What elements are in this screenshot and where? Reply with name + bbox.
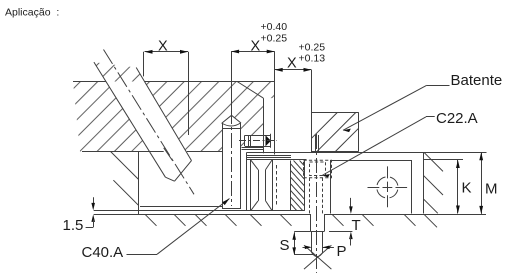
svg-text:X: X (158, 39, 168, 55)
svg-text:M: M (485, 180, 498, 197)
svg-text:+0.13: +0.13 (299, 53, 326, 65)
svg-text:Aplicação :: Aplicação : (5, 6, 59, 18)
svg-text:+0.40: +0.40 (261, 21, 288, 33)
svg-text:Batente: Batente (451, 72, 503, 89)
svg-text:C22.A: C22.A (436, 110, 478, 127)
svg-text:1.5: 1.5 (63, 217, 84, 234)
svg-text:S: S (280, 237, 290, 254)
svg-text:X: X (287, 56, 297, 72)
svg-text:P: P (337, 243, 347, 260)
svg-text:X: X (251, 39, 261, 55)
svg-text:K: K (462, 180, 472, 197)
svg-text:C40.A: C40.A (82, 244, 124, 261)
svg-text:T: T (352, 217, 361, 234)
svg-text:+0.25: +0.25 (261, 32, 288, 44)
